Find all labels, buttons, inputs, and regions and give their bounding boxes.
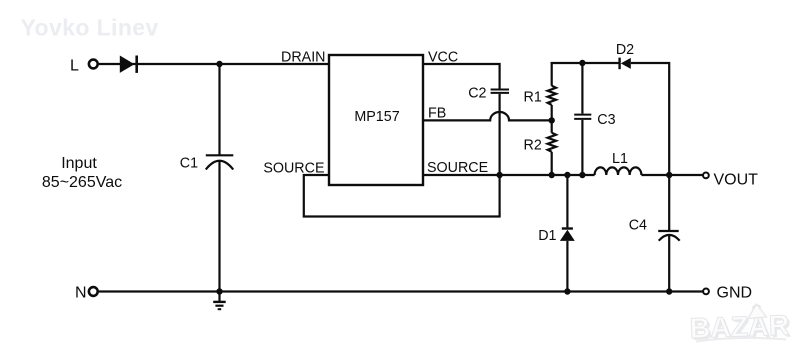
svg-text:DRAIN: DRAIN: [281, 50, 325, 66]
svg-text:R1: R1: [524, 89, 542, 105]
node: D1 bottom junction: [564, 288, 570, 294]
svg-text:C3: C3: [597, 112, 615, 128]
svg-text:C1: C1: [180, 155, 198, 171]
op-amp U1 MP157 (IC body): [329, 55, 423, 185]
node: SOURCE/C2 junction: [496, 172, 502, 178]
svg-text:N: N: [75, 285, 87, 302]
wire FB with hop over C2 wire: [423, 112, 552, 120]
svg-text:GND: GND: [717, 284, 753, 301]
watermark BAZAR logo: [689, 304, 792, 347]
wire bottom rail N to GND: [99, 290, 703, 292]
svg-text:VOUT: VOUT: [714, 172, 759, 189]
wire top rail R1 to D2: [551, 62, 619, 64]
wire SOURCE (left pin) loop: [304, 175, 501, 217]
svg-text:MP157: MP157: [354, 109, 399, 125]
resistor R2: [524, 120, 556, 175]
wire SOURCE rail: [423, 174, 595, 176]
terminal N: [75, 285, 98, 302]
wire L to DRAIN: [99, 63, 330, 65]
wire L1 to VOUT: [641, 174, 702, 176]
svg-text:Input: Input: [61, 155, 97, 172]
capacitor C3: [574, 63, 615, 175]
node: R2 bottom junction: [549, 172, 555, 178]
svg-text:L: L: [70, 57, 79, 74]
diode (input rectifier): [120, 56, 137, 73]
diode D2: [616, 42, 634, 69]
node: C1/ground junction: [216, 288, 222, 294]
capacitor C1: [180, 64, 234, 292]
node: D1 top junction: [564, 172, 570, 178]
svg-text:FB: FB: [428, 106, 446, 122]
terminal GND: [703, 284, 752, 301]
node: C4 bottom junction: [666, 288, 672, 294]
svg-text:SOURCE: SOURCE: [427, 160, 488, 176]
svg-text:C2: C2: [468, 85, 486, 101]
terminal VOUT: [703, 172, 758, 189]
wire C2 down across FB to SOURCE net: [499, 94, 501, 217]
watermark Yovko Linev: [21, 14, 159, 40]
svg-text:L1: L1: [612, 151, 628, 167]
inductor L1: [595, 151, 642, 175]
wire VCC to C2: [423, 64, 500, 89]
wire D2 to VOUT rail: [631, 63, 669, 175]
diode D1: [538, 175, 575, 292]
svg-text:D1: D1: [538, 228, 556, 244]
node: junction L-rail / C1: [216, 61, 222, 67]
svg-text:R2: R2: [524, 138, 542, 154]
svg-text:85~265Vac: 85~265Vac: [42, 174, 122, 191]
svg-text:D2: D2: [616, 42, 634, 58]
node: C3 bottom junction: [579, 172, 585, 178]
capacitor C2: [468, 85, 509, 101]
ground: [213, 292, 226, 310]
svg-text:Yovko Linev: Yovko Linev: [21, 14, 159, 40]
capacitor C4: [629, 175, 680, 292]
terminal L: [70, 57, 98, 74]
resistor R1: [524, 62, 556, 120]
node: FB / R1 / R2 junction: [549, 117, 555, 123]
node: C3 top junction: [579, 60, 585, 66]
label Input 85~265Vac: [42, 155, 122, 191]
node: VOUT rail / C4 junction: [666, 172, 672, 178]
svg-text:C4: C4: [629, 218, 647, 234]
